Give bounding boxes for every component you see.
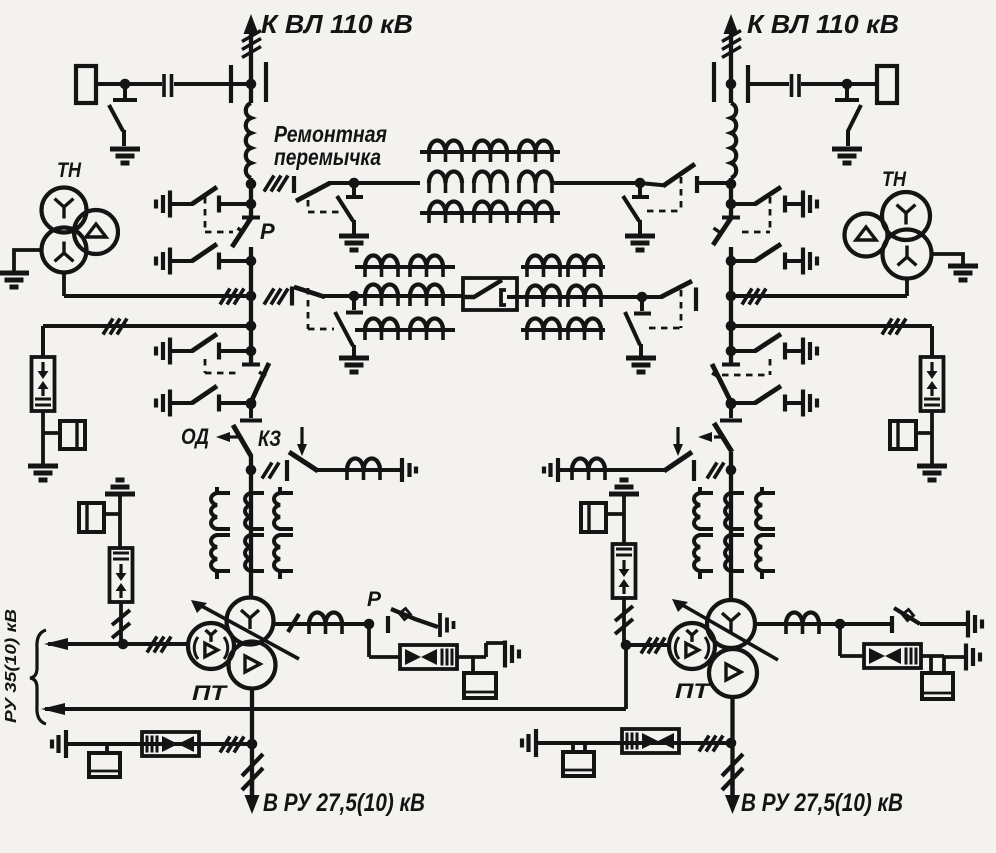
output disconnector blade left with tick xyxy=(391,609,438,627)
inverted ground of right inner arrester counter xyxy=(609,480,639,494)
PT right LV winding circle xyxy=(709,649,757,697)
hatch on feeder to PT left xyxy=(147,637,171,653)
hatch on bottom branch left xyxy=(220,737,244,753)
wire contact to ground xyxy=(787,401,802,405)
junction on left bus xyxy=(246,398,257,409)
linkage dashes rows3-4 left xyxy=(205,359,241,373)
PT left LV winding circle xyxy=(229,642,276,689)
TH right bottom winding circle xyxy=(883,230,932,279)
hatch on left arrester line xyxy=(103,319,127,335)
fixed earth contact below upper-right jumper switch xyxy=(632,183,649,197)
junction of coupling line with left bus xyxy=(246,79,257,90)
linkage dashes lower-right jumper xyxy=(649,290,681,328)
surge counter box left inner xyxy=(79,503,104,532)
ground right outer arrester xyxy=(917,466,947,480)
wire blade to ground right output xyxy=(920,622,966,626)
current transformer coil on KZ branch right xyxy=(572,459,605,470)
branch disconnector blade xyxy=(192,244,217,261)
branch disconnector blade xyxy=(192,187,217,204)
wire box to right coils xyxy=(517,295,642,299)
bus disconnector blade left lower xyxy=(251,363,269,402)
wire up to rotated ground left output xyxy=(486,643,504,657)
junction on left bus xyxy=(246,256,257,267)
counter cell box left xyxy=(464,673,496,698)
drop wire to spark gap box right xyxy=(840,624,864,656)
contact bar lower jumper right xyxy=(694,288,698,312)
breaker blade inside box xyxy=(463,280,502,297)
wire TH left to bus xyxy=(64,294,251,298)
mechanical linkage dashes upper-left jumper xyxy=(308,200,340,212)
fixed earth contact below lower-left jumper switch xyxy=(346,296,363,313)
ground lower-left jumper earthing switch xyxy=(339,358,369,372)
surge counter box left outer xyxy=(60,421,85,449)
separator OD blade right xyxy=(714,423,732,452)
earthing blade lower-right jumper xyxy=(625,312,641,357)
wire inverted ground to counter left inner xyxy=(104,494,120,514)
right outer surge arrester drop wire xyxy=(930,326,934,357)
surge counter box right outer xyxy=(890,421,916,449)
jumper circuit breaker box xyxy=(463,278,517,310)
reactor coils left block row3 xyxy=(365,319,398,331)
wire PT right output xyxy=(755,622,840,626)
PT right regulation arrow xyxy=(679,603,778,660)
feeder arrow upper РУ 35 left xyxy=(48,642,188,646)
earthing branch on left bus at y=403: ground xyxy=(156,390,170,417)
junction upper jumper with right bus xyxy=(726,179,737,190)
node: overhead line terminal right, arrow up К ВЛ 110 кВ xyxy=(724,14,739,34)
contact bar upper jumper left xyxy=(292,176,296,193)
big hatch on right bus exit xyxy=(722,754,743,790)
contact bar KZ stub right xyxy=(692,460,696,481)
svg-text:КЗ: КЗ xyxy=(258,426,281,451)
junction above OD right xyxy=(726,399,737,410)
wire contact to ground xyxy=(787,349,802,353)
contact bar upper jumper right xyxy=(695,176,699,193)
fixed contact T below row1 junction right bus xyxy=(722,204,740,218)
junction lower-right jumper switch xyxy=(637,292,648,303)
rotated ground at end of KZ branch right xyxy=(544,458,558,482)
junction arrester line with left bus xyxy=(246,321,257,332)
branch disconnector blade xyxy=(755,244,781,261)
wire ground to blade xyxy=(172,349,193,353)
branch ground xyxy=(803,390,817,417)
drop to counter cell left bottom xyxy=(105,744,109,753)
svg-text:В РУ 27,5(10) кВ: В РУ 27,5(10) кВ xyxy=(741,789,903,817)
spark gap box right bottom xyxy=(622,729,679,753)
junction lower-left jumper switch xyxy=(349,291,360,302)
spark gap box left bottom xyxy=(142,732,199,756)
arrow of KZ left xyxy=(300,427,303,445)
left bus wire PT to exit xyxy=(250,689,254,797)
hatch on bottom branch right xyxy=(699,736,723,752)
wire TH right to ground xyxy=(932,254,964,264)
svg-text:ПТ: ПТ xyxy=(675,680,712,703)
svg-text:В РУ 27,5(10) кВ: В РУ 27,5(10) кВ xyxy=(263,789,425,817)
wire contact to bus xyxy=(221,401,251,405)
output disconnector blade right with tick xyxy=(894,608,920,624)
wire contact to ground xyxy=(787,202,802,206)
earthing blade upper-left jumper xyxy=(337,196,354,234)
wire right arrester line xyxy=(731,324,932,328)
wire contact to ground xyxy=(787,259,802,263)
reactor coils right block row2 on wire xyxy=(527,286,560,298)
wire down to right inner arrester xyxy=(622,514,626,544)
surge counter box right inner xyxy=(581,503,606,532)
contact bar lower jumper left xyxy=(290,287,294,306)
coupling capacitor right xyxy=(792,74,800,97)
junction arrester drop on feeder xyxy=(118,639,129,650)
earthing blade upper-right jumper xyxy=(623,196,640,234)
capacitor plate at left bus xyxy=(229,65,233,103)
stub plate left of right bus xyxy=(712,62,716,102)
earthing branch on left bus at y=261: ground xyxy=(156,248,170,275)
rotated ground left bottom branch xyxy=(52,730,66,758)
right inner surge arrester xyxy=(613,544,636,598)
earthing branch on right bus at y=351: junction xyxy=(726,346,737,357)
branch contact bar xyxy=(217,253,221,270)
coupling capacitor left xyxy=(164,74,172,97)
wire spark box to counter left xyxy=(457,657,486,673)
filter reactor row 3 bottom line xyxy=(420,211,560,215)
left bus wire OD to transformer xyxy=(249,455,253,599)
junction on left bus xyxy=(246,199,257,210)
junction KZ row right bus xyxy=(726,465,737,476)
arrow of KZ right xyxy=(676,427,679,445)
right bus wire between disconnectors xyxy=(729,247,733,364)
ground lower-right jumper earthing switch xyxy=(626,358,656,372)
wire down to left inner arrester xyxy=(118,514,122,548)
junction bottom branch with left bus xyxy=(247,739,258,750)
wire arrester to ground left outer xyxy=(41,433,45,464)
left outer surge arrester xyxy=(32,357,55,411)
ground of top-right earthing switch xyxy=(832,149,862,163)
svg-text:Р: Р xyxy=(367,588,382,611)
svg-text:К ВЛ 110 кВ: К ВЛ 110 кВ xyxy=(261,9,413,39)
arrow of OD right xyxy=(714,435,722,438)
TH right delta winding circle xyxy=(845,214,888,257)
wire bus to blade xyxy=(731,259,756,263)
branch ground xyxy=(803,191,817,218)
svg-text:ТН: ТН xyxy=(57,159,82,182)
drop wire to spark gap box left xyxy=(369,624,400,657)
svg-text:ТН: ТН xyxy=(882,168,907,191)
wire bus to blade xyxy=(731,401,756,405)
disconnector blade lower jumper left xyxy=(294,287,325,297)
arrow of OD left xyxy=(229,435,242,438)
left inner surge arrester xyxy=(110,548,133,602)
coupling filter box right xyxy=(877,66,897,103)
drop to counter cell right bottom xyxy=(573,743,585,752)
junction upper jumper right switch xyxy=(635,178,646,189)
fixed contact T below row3 junction right bus xyxy=(722,351,740,365)
svg-text:К ВЛ 110 кВ: К ВЛ 110 кВ xyxy=(747,9,899,39)
wire upper jumper right span xyxy=(554,181,640,185)
reactor coils row2 on jumper wire xyxy=(429,172,462,184)
linkage dashes rows1-2 right xyxy=(742,197,770,232)
junction PT left output xyxy=(364,619,375,630)
right outer surge arrester xyxy=(921,357,944,411)
filter reactor row 1 top line xyxy=(420,150,560,154)
earthing switch at top-left junction xyxy=(113,84,137,100)
reactor coils right block row3 xyxy=(527,319,560,331)
fixed contact T of separator OD right xyxy=(720,404,742,421)
fixed contact T below row3 junction left bus xyxy=(242,351,260,365)
spark gap box with counter right xyxy=(864,644,921,668)
KZ branch wire left xyxy=(317,468,402,472)
rotated ground at end of KZ branch left xyxy=(402,458,416,482)
node: overhead line terminal left, arrow up К ВЛ 110 кВ xyxy=(244,14,259,34)
reactor coils left block row2 on wire xyxy=(365,285,398,297)
coil on PT right output xyxy=(786,613,819,625)
counter cell box right xyxy=(922,673,953,699)
counter cell box right bottom xyxy=(563,752,594,776)
TH left bottom winding circle xyxy=(42,228,87,273)
intertie riser to PT right input xyxy=(624,645,628,709)
linkage dashes lower-left jumper xyxy=(308,288,334,329)
short-circuiter KZ blade left xyxy=(289,452,318,471)
branch contact bar xyxy=(217,343,221,360)
branch contact bar xyxy=(783,395,787,412)
wire to PT right tertiary xyxy=(626,643,669,647)
hatch on right inner arrester lead xyxy=(615,606,633,634)
wire arrester to ground right outer xyxy=(930,433,934,464)
feeder arrow lower РУ 35 / intertie xyxy=(45,707,626,711)
wire arrester to counter left xyxy=(43,411,60,433)
mechanical linkage dashes upper-right jumper xyxy=(647,177,681,211)
hatch on TH left wire xyxy=(220,289,244,305)
junction above OD left xyxy=(246,399,257,410)
junction lower jumper with right bus xyxy=(726,291,737,302)
junction on top-right wire xyxy=(842,79,853,90)
fixed earth contact below lower-right jumper switch xyxy=(634,297,651,314)
separator OD blade left xyxy=(233,425,251,456)
wire bus to TH right xyxy=(731,294,907,298)
fixed contact T below row1 junction left bus xyxy=(242,204,260,218)
junction KZ row left bus xyxy=(246,465,257,476)
reactor coils row3 xyxy=(429,202,462,213)
hatch on right arrester line xyxy=(882,319,906,335)
wire upper jumper left span xyxy=(328,181,420,185)
current transformer coil on KZ branch left xyxy=(347,459,380,470)
branch contact bar xyxy=(217,196,221,213)
coil on PT left output xyxy=(309,613,342,625)
left bus wire between P and row4 xyxy=(249,247,253,364)
right bus wire OD to transformer xyxy=(729,452,733,601)
arrow down В РУ left xyxy=(250,780,254,797)
earthing branch on left bus at y=351: ground xyxy=(156,338,170,365)
wire contact to bus xyxy=(221,349,251,353)
wire ground to blade xyxy=(172,259,193,263)
branch disconnector blade xyxy=(192,334,217,351)
junction upper jumper left switch xyxy=(349,178,360,189)
branch contact bar xyxy=(217,395,221,412)
reactor coils right block row1 xyxy=(527,256,560,268)
traction transformer PT left: HV winding circle xyxy=(227,598,274,645)
ground of top-left earthing switch xyxy=(110,149,140,163)
fixed earth contact below upper-left jumper switch xyxy=(346,183,363,197)
ground of TH left xyxy=(0,273,29,287)
bus disconnector blade right upper xyxy=(713,218,731,245)
hatch on PT left output xyxy=(288,614,299,632)
big hatch on left bus exit xyxy=(242,754,263,790)
PT left regulation arrow xyxy=(198,604,299,659)
PT left tertiary winding circle xyxy=(188,623,234,669)
filter reactor columns left unit xyxy=(215,487,219,493)
hatch on KZ stub right xyxy=(707,463,724,479)
branch contact bar xyxy=(783,343,787,360)
earthing branch on right bus at y=261: junction xyxy=(726,256,737,267)
junction PT right input xyxy=(621,640,632,651)
right bus wire PT to exit xyxy=(730,697,734,796)
wire TH left down to jumper row xyxy=(62,273,66,297)
contact bar KZ stub left xyxy=(285,460,289,481)
disconnector blade lower jumper right xyxy=(661,281,692,297)
svg-text:перемычка: перемычка xyxy=(274,144,381,170)
smoothing reactor right block bottom line xyxy=(521,328,605,332)
bracket brace for РУ 35 feeders xyxy=(30,630,46,724)
wire contact to bus xyxy=(221,202,251,206)
rotated ground right bottom branch xyxy=(522,729,536,757)
wire ground to blade xyxy=(172,202,193,206)
hatch marks on right 110kV lead xyxy=(722,31,741,58)
TH left delta winding circle xyxy=(74,210,118,254)
wire bus to blade xyxy=(731,349,756,353)
contact bar output disconnector right xyxy=(890,616,894,633)
junction PT right output xyxy=(835,619,846,630)
wire bus to blade xyxy=(731,202,756,206)
wire bar to right bus upper jumper xyxy=(699,181,731,185)
line trap coil on left bus xyxy=(246,103,251,178)
earthing blade lower-left jumper xyxy=(335,312,354,357)
TH right top winding circle xyxy=(882,192,930,240)
linkage dashes rows1-2 left xyxy=(205,197,233,232)
junction arrester line with right bus xyxy=(726,321,737,332)
wire junction to blade lower-right jumper xyxy=(642,295,663,299)
wire inverted ground to counter right inner xyxy=(606,494,624,514)
smoothing reactor left block top line xyxy=(355,265,455,269)
svg-text:ПТ: ПТ xyxy=(192,682,229,705)
left bus upper section wire xyxy=(249,178,253,217)
disconnector blade upper jumper right xyxy=(663,164,695,186)
junction of coupling line with right bus xyxy=(726,79,737,90)
branch disconnector blade xyxy=(755,187,781,204)
junction lower jumper with left bus xyxy=(246,291,257,302)
ground upper-left jumper earthing switch xyxy=(339,236,369,250)
wire spark box to counter right xyxy=(921,656,944,673)
reactor coils row1 xyxy=(429,141,462,153)
bus disconnector P blade left upper xyxy=(232,218,251,247)
wire junction to blade upper-right jumper xyxy=(640,183,666,186)
branch disconnector blade xyxy=(755,386,781,403)
ground upper-right jumper earthing switch xyxy=(625,236,655,250)
earthing branch on right bus at y=403: junction xyxy=(726,398,737,409)
capacitor plate at right bus xyxy=(746,65,750,103)
svg-text:Р: Р xyxy=(260,219,275,244)
wire lower jumper to box xyxy=(323,294,463,298)
wire to output disconnector right xyxy=(840,622,890,626)
ground left outer arrester xyxy=(28,466,58,480)
reactor coils left block row1 xyxy=(365,256,398,268)
spark gap box with counter left xyxy=(400,645,457,669)
wire bottom branch left xyxy=(68,742,251,746)
filter reactor columns right unit xyxy=(698,487,702,493)
wire TH left to ground xyxy=(14,250,42,271)
branch contact bar xyxy=(783,196,787,213)
junction bottom branch with right bus xyxy=(726,738,737,749)
wire bottom branch right xyxy=(538,741,731,745)
contact bar output disconnector left xyxy=(386,616,390,633)
svg-text:ОД: ОД xyxy=(181,424,209,449)
hatch on TH right wire xyxy=(742,289,766,305)
wire contact to bus xyxy=(221,259,251,263)
rotated ground after output disconnector left xyxy=(440,613,454,637)
hatch on upper jumper at left bus xyxy=(264,176,288,192)
disconnector blade upper jumper left xyxy=(296,183,330,201)
wire counter to rotated ground right xyxy=(944,657,965,673)
short-circuiter KZ blade right xyxy=(664,452,692,471)
line trap coil on right bus xyxy=(731,103,736,178)
wire ground to blade xyxy=(172,401,193,405)
wire TH right down-lead xyxy=(905,280,909,297)
branch ground xyxy=(803,338,817,365)
junction upper jumper with left bus xyxy=(246,179,257,190)
branch disconnector blade xyxy=(755,334,781,351)
svg-text:РУ 35(10) кВ: РУ 35(10) кВ xyxy=(3,609,20,723)
wire PT left output xyxy=(274,622,370,626)
right bus upper section wire xyxy=(729,178,733,217)
traction transformer PT right: HV winding circle xyxy=(707,600,755,648)
PT right tertiary winding circle xyxy=(669,623,715,669)
fixed contact T of separator OD left xyxy=(240,404,262,421)
wire capacitor to filter box right xyxy=(847,82,877,86)
bus disconnector blade right lower xyxy=(712,364,731,402)
wire left arrester line xyxy=(43,324,251,328)
stub plate right of left bus xyxy=(264,62,268,102)
rotated ground after output disconnector right xyxy=(968,611,982,638)
branch contact bar xyxy=(783,253,787,270)
branch ground xyxy=(803,248,817,275)
wire from filter box to capacitor xyxy=(96,82,162,86)
junction on left bus xyxy=(246,346,257,357)
hatch on lower jumper at left bus xyxy=(264,289,288,305)
hatch marks on left 110kV lead xyxy=(242,31,261,58)
smoothing reactor right block top line xyxy=(521,265,605,269)
earthing branch on left bus at y=204: ground xyxy=(156,191,170,218)
hatch on left inner arrester lead xyxy=(112,610,130,638)
smoothing reactor left block bottom line xyxy=(355,328,455,332)
ground of TH right xyxy=(948,266,978,280)
linkage dashes rows3-4 right xyxy=(722,359,770,375)
hatch on KZ stub left xyxy=(262,463,279,479)
inverted ground of left inner arrester counter xyxy=(105,480,135,494)
coupling filter box left xyxy=(76,66,96,103)
counter cell box left bottom xyxy=(89,753,120,777)
left outer surge arrester drop wire xyxy=(41,326,45,357)
TH left top winding circle xyxy=(42,188,87,233)
KZ branch wire right xyxy=(560,468,666,472)
hatch on PT right input wire xyxy=(641,638,665,654)
junction on top-left wire xyxy=(120,79,131,90)
arrow down В РУ right xyxy=(730,780,734,797)
wire arrester to counter right xyxy=(916,411,932,433)
branch disconnector blade xyxy=(192,386,217,403)
earthing switch at top-right junction xyxy=(835,84,859,100)
earthing branch on right bus at y=204: junction xyxy=(726,199,737,210)
